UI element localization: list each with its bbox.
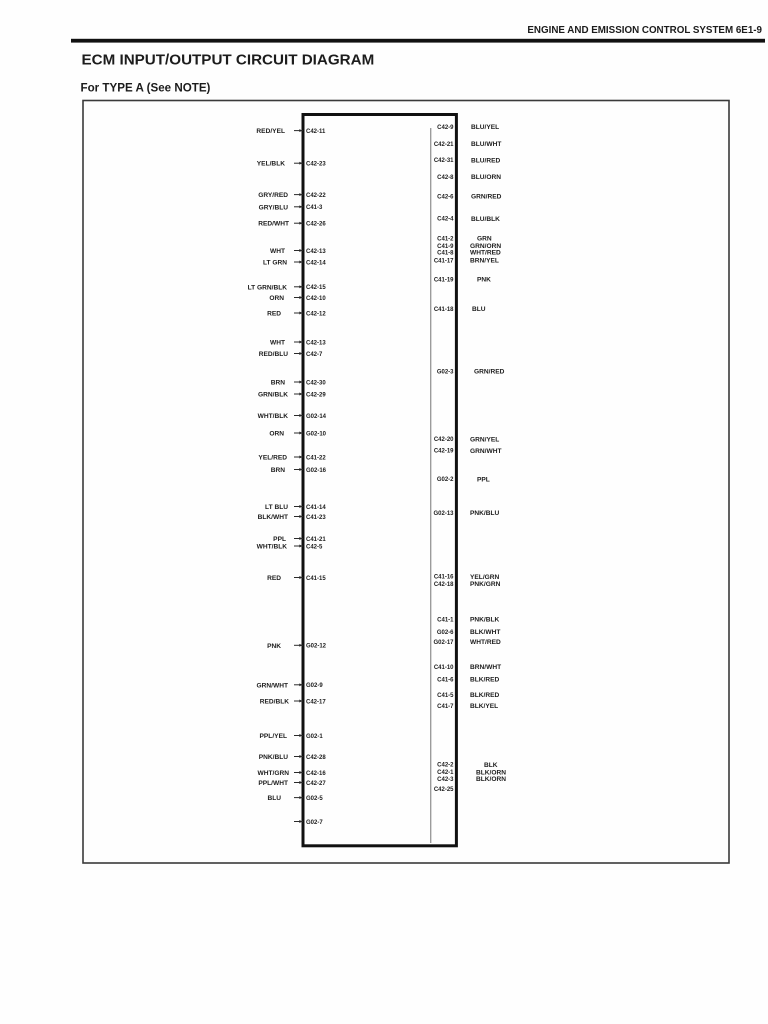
svg-text:WHT: WHT xyxy=(270,340,285,347)
svg-text:C42-6: C42-6 xyxy=(437,194,454,200)
svg-text:BRN/YEL: BRN/YEL xyxy=(470,258,499,265)
svg-text:C42-21: C42-21 xyxy=(434,142,454,148)
svg-text:C41-6: C41-6 xyxy=(437,677,454,683)
svg-text:G02-1: G02-1 xyxy=(306,734,323,740)
svg-text:BRN: BRN xyxy=(271,467,286,474)
svg-text:PNK: PNK xyxy=(477,277,491,284)
svg-text:G02-10: G02-10 xyxy=(306,431,327,437)
svg-text:ORN: ORN xyxy=(269,431,284,438)
svg-text:C42-26: C42-26 xyxy=(306,222,326,228)
svg-text:BLK: BLK xyxy=(484,762,498,769)
svg-text:G02-7: G02-7 xyxy=(306,820,323,826)
svg-text:C42-4: C42-4 xyxy=(437,217,454,223)
svg-text:BLK/RED: BLK/RED xyxy=(470,692,500,699)
svg-text:BLU/BLK: BLU/BLK xyxy=(471,216,500,223)
svg-text:BLK/WHT: BLK/WHT xyxy=(258,514,288,521)
svg-text:ORN: ORN xyxy=(269,295,284,302)
svg-text:C42-17: C42-17 xyxy=(306,699,326,705)
svg-text:PNK/BLU: PNK/BLU xyxy=(470,510,500,517)
diagram frame xyxy=(83,101,729,864)
svg-text:LT GRN/BLK: LT GRN/BLK xyxy=(248,284,288,291)
svg-text:GRN/YEL: GRN/YEL xyxy=(470,436,499,443)
svg-text:C42-19: C42-19 xyxy=(434,449,454,455)
svg-text:PNK/BLU: PNK/BLU xyxy=(259,754,289,761)
svg-text:WHT/GRN: WHT/GRN xyxy=(258,770,290,777)
svg-text:C41-15: C41-15 xyxy=(306,576,326,582)
svg-text:C41-9: C41-9 xyxy=(437,244,454,250)
svg-text:BRN: BRN xyxy=(271,380,286,387)
ECM box xyxy=(303,115,456,846)
svg-text:C42-30: C42-30 xyxy=(306,380,326,386)
svg-text:YEL/BLK: YEL/BLK xyxy=(257,161,285,168)
svg-text:C42-23: C42-23 xyxy=(306,162,326,168)
svg-text:YEL/RED: YEL/RED xyxy=(258,455,287,462)
svg-text:G02-13: G02-13 xyxy=(433,511,454,517)
svg-text:WHT/RED: WHT/RED xyxy=(470,639,501,646)
svg-text:GRY/RED: GRY/RED xyxy=(258,192,288,199)
svg-text:BLK/WHT: BLK/WHT xyxy=(470,629,500,636)
svg-text:C42-18: C42-18 xyxy=(434,582,454,588)
svg-text:PNK/GRN: PNK/GRN xyxy=(470,581,501,588)
svg-text:BLU: BLU xyxy=(472,306,486,313)
svg-text:C42-5: C42-5 xyxy=(306,544,323,550)
svg-text:C42-31: C42-31 xyxy=(434,158,454,164)
svg-text:BLU/YEL: BLU/YEL xyxy=(471,124,499,131)
svg-text:G02-5: G02-5 xyxy=(306,796,323,802)
svg-text:PPL: PPL xyxy=(273,536,286,543)
svg-text:C42-28: C42-28 xyxy=(306,755,326,761)
svg-text:RED/BLK: RED/BLK xyxy=(260,699,290,706)
header rule xyxy=(71,39,765,43)
svg-text:GRN/RED: GRN/RED xyxy=(471,194,502,201)
svg-text:LT BLU: LT BLU xyxy=(265,504,288,511)
svg-text:GRN/RED: GRN/RED xyxy=(474,369,505,376)
svg-text:C42-29: C42-29 xyxy=(306,392,326,398)
svg-text:C41-7: C41-7 xyxy=(437,704,454,710)
svg-text:RED/YEL: RED/YEL xyxy=(256,128,285,135)
ECM internal bus line xyxy=(430,128,432,843)
svg-text:C42-15: C42-15 xyxy=(306,285,326,291)
svg-text:C42-8: C42-8 xyxy=(437,175,454,181)
svg-text:BLK/YEL: BLK/YEL xyxy=(470,703,498,710)
svg-text:C41-1: C41-1 xyxy=(437,617,454,623)
svg-text:BLK/ORN: BLK/ORN xyxy=(476,776,506,783)
svg-text:GRN/WHT: GRN/WHT xyxy=(257,682,289,689)
svg-text:C42-14: C42-14 xyxy=(306,260,326,266)
svg-text:C41-8: C41-8 xyxy=(437,250,454,256)
svg-text:C41-5: C41-5 xyxy=(437,693,454,699)
svg-text:PPL/YEL: PPL/YEL xyxy=(260,733,287,740)
svg-text:G02-6: G02-6 xyxy=(437,630,454,636)
svg-text:C41-22: C41-22 xyxy=(306,455,326,461)
svg-text:G02-16: G02-16 xyxy=(306,468,327,474)
svg-text:G02-2: G02-2 xyxy=(437,477,454,483)
svg-text:C42-1: C42-1 xyxy=(437,770,454,776)
svg-text:PNK: PNK xyxy=(267,643,281,650)
svg-text:BLU/WHT: BLU/WHT xyxy=(471,141,501,148)
svg-text:C42-2: C42-2 xyxy=(437,763,454,769)
svg-text:BLU/ORN: BLU/ORN xyxy=(471,174,501,181)
svg-text:C42-25: C42-25 xyxy=(434,787,454,793)
svg-text:BRN/WHT: BRN/WHT xyxy=(470,664,501,671)
svg-text:GRN/BLK: GRN/BLK xyxy=(258,392,288,399)
svg-text:WHT/RED: WHT/RED xyxy=(470,250,501,257)
svg-text:ENGINE AND EMISSION CONTROL SY: ENGINE AND EMISSION CONTROL SYSTEM 6E1-9 xyxy=(527,25,762,36)
svg-text:BLU/RED: BLU/RED xyxy=(471,157,501,164)
svg-text:C41-3: C41-3 xyxy=(306,205,323,211)
svg-text:WHT/BLK: WHT/BLK xyxy=(257,544,288,551)
svg-text:BLU: BLU xyxy=(267,795,281,802)
svg-text:C41-19: C41-19 xyxy=(434,278,454,284)
svg-text:For TYPE A (See NOTE): For TYPE A (See NOTE) xyxy=(81,82,211,95)
svg-text:C41-17: C41-17 xyxy=(434,259,454,265)
svg-text:G02-17: G02-17 xyxy=(433,640,454,646)
svg-text:C41-10: C41-10 xyxy=(434,665,454,671)
svg-text:PPL/WHT: PPL/WHT xyxy=(258,780,288,787)
svg-text:C42-11: C42-11 xyxy=(306,129,326,135)
svg-text:GRN: GRN xyxy=(477,236,492,243)
svg-text:LT GRN: LT GRN xyxy=(263,260,287,267)
svg-text:BLK/RED: BLK/RED xyxy=(470,677,500,684)
svg-text:C41-21: C41-21 xyxy=(306,537,326,543)
svg-text:C42-13: C42-13 xyxy=(306,340,326,346)
svg-text:WHT: WHT xyxy=(270,248,285,255)
svg-text:RED/BLU: RED/BLU xyxy=(259,351,289,358)
svg-text:C42-9: C42-9 xyxy=(437,125,454,131)
svg-text:C42-3: C42-3 xyxy=(437,777,454,783)
svg-text:G02-9: G02-9 xyxy=(306,683,323,689)
svg-text:GRY/BLU: GRY/BLU xyxy=(259,204,289,211)
svg-text:C42-22: C42-22 xyxy=(306,193,326,199)
svg-text:C42-20: C42-20 xyxy=(434,437,454,443)
svg-text:YEL/GRN: YEL/GRN xyxy=(470,574,500,581)
svg-text:C42-12: C42-12 xyxy=(306,311,326,317)
svg-text:G02-14: G02-14 xyxy=(306,414,327,420)
svg-text:PPL: PPL xyxy=(477,476,490,483)
svg-text:C41-2: C41-2 xyxy=(437,237,454,243)
svg-text:G02-3: G02-3 xyxy=(437,369,454,375)
svg-text:C42-16: C42-16 xyxy=(306,771,326,777)
svg-text:RED: RED xyxy=(267,575,281,582)
svg-text:C42-10: C42-10 xyxy=(306,296,326,302)
svg-text:C42-27: C42-27 xyxy=(306,781,326,787)
svg-text:GRN/WHT: GRN/WHT xyxy=(470,448,502,455)
svg-text:PNK/BLK: PNK/BLK xyxy=(470,617,500,624)
svg-text:C41-18: C41-18 xyxy=(434,307,454,313)
svg-text:C41-16: C41-16 xyxy=(434,575,454,581)
svg-text:RED: RED xyxy=(267,311,281,318)
svg-text:ECM INPUT/OUTPUT CIRCUIT DIAGR: ECM INPUT/OUTPUT CIRCUIT DIAGRAM xyxy=(82,52,375,69)
svg-text:G02-12: G02-12 xyxy=(306,644,327,650)
svg-text:RED/WHT: RED/WHT xyxy=(258,221,289,228)
svg-text:C41-23: C41-23 xyxy=(306,515,326,521)
svg-text:C41-14: C41-14 xyxy=(306,505,326,511)
svg-text:WHT/BLK: WHT/BLK xyxy=(258,413,289,420)
svg-text:C42-13: C42-13 xyxy=(306,249,326,255)
svg-text:C42-7: C42-7 xyxy=(306,352,323,358)
